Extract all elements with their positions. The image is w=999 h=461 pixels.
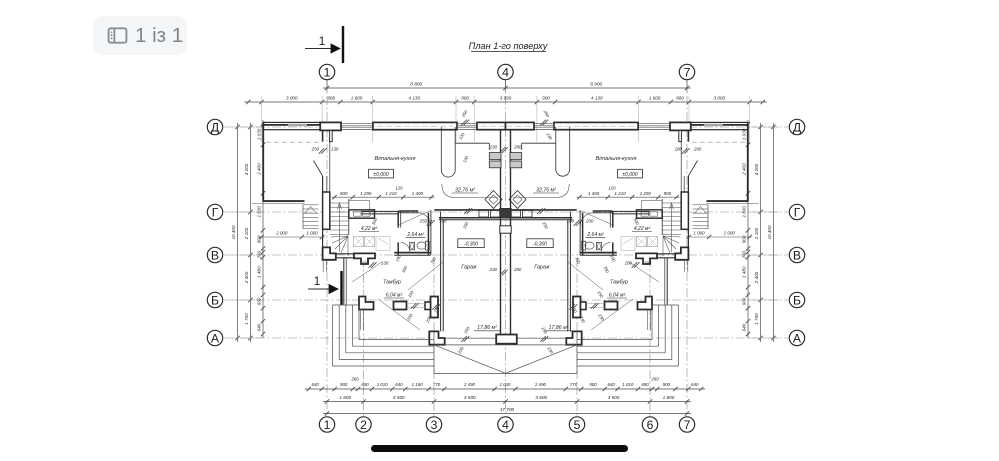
axis circle 6 bottom [642,417,657,432]
svg-text:1 000: 1 000 [693,231,705,236]
svg-text:640: 640 [312,382,320,387]
svg-text:250: 250 [460,109,469,119]
dimension column right inner [742,120,751,338]
svg-text:2 400: 2 400 [754,271,759,284]
svg-text:350: 350 [401,265,409,274]
svg-text:3 500: 3 500 [608,395,620,400]
svg-text:200: 200 [643,261,652,266]
laundry appliances (left) [354,237,391,251]
leader lines (right) [568,210,659,330]
svg-text:Б: Б [211,293,219,307]
svg-text:1: 1 [324,65,331,79]
svg-text:2,64 м²: 2,64 м² [406,232,424,238]
dimension column right outer [767,123,776,342]
svg-text:Тамбур: Тамбур [383,280,401,286]
wall thickness callouts (right) [537,109,702,355]
svg-text:А: А [793,331,802,345]
svg-text:1 400: 1 400 [588,191,600,196]
tambour-garage divider wall (right) [568,212,586,332]
svg-text:750: 750 [574,256,582,265]
svg-text:900: 900 [664,191,672,196]
dimension column right mid [754,123,763,342]
svg-text:32,76 м²: 32,76 м² [536,188,556,194]
axis circle 4 top [498,64,513,79]
dimension row bottom 1800/3500 [323,395,691,404]
svg-text:-0,300: -0,300 [533,242,547,248]
svg-text:Д: Д [793,120,802,134]
svg-text:Г: Г [794,205,801,219]
svg-text:3 090: 3 090 [500,96,512,101]
dimension row top segments [244,96,767,142]
svg-text:Д: Д [211,120,220,134]
svg-text:900: 900 [589,382,597,387]
svg-text:230: 230 [489,267,498,272]
svg-text:130: 130 [331,147,339,152]
svg-text:3: 3 [431,418,438,432]
svg-text:8 800: 8 800 [410,82,422,88]
svg-text:Вітальня-кухня: Вітальня-кухня [596,156,637,162]
svg-text:640: 640 [691,382,699,387]
svg-text:1 290: 1 290 [360,191,372,196]
kitchen fixtures (right) [509,127,570,217]
svg-text:350: 350 [603,265,611,274]
svg-text:Гараж: Гараж [461,265,477,271]
svg-text:±0,000: ±0,000 [622,172,637,178]
interior staircase (left) [330,199,349,256]
svg-text:660: 660 [742,297,747,305]
axis circle А right [789,330,804,345]
dimension row bottom fine [305,377,705,392]
svg-text:4 130: 4 130 [409,96,421,101]
svg-text:900: 900 [327,96,335,101]
svg-text:План 1-го поверху: План 1-го поверху [469,41,549,51]
svg-text:10 400: 10 400 [231,225,236,239]
svg-text:Вітальня-кухня: Вітальня-кухня [375,156,416,162]
dimension row bottom total 17700 [323,407,691,416]
svg-text:1 600: 1 600 [351,96,363,101]
axis circle 1 top [319,64,334,79]
svg-text:200: 200 [693,147,702,152]
svg-text:150: 150 [540,326,548,335]
svg-text:1 800: 1 800 [339,395,351,400]
svg-text:150: 150 [463,325,471,334]
axis circle В left [207,247,222,262]
svg-text:1 210: 1 210 [614,191,626,196]
svg-text:32,76 м²: 32,76 м² [455,188,475,194]
svg-text:В: В [211,248,219,262]
svg-text:6,04 м²: 6,04 м² [609,293,626,299]
axis circle 2 bottom [356,417,371,432]
svg-text:900: 900 [542,96,550,101]
svg-text:230: 230 [546,345,555,355]
page counter chip [93,16,187,55]
svg-text:А: А [211,331,220,345]
svg-text:180: 180 [625,261,633,266]
garage (left) [429,218,505,345]
bathroom 2.64 (right) [580,211,617,255]
section mark 1 top [305,26,343,63]
svg-text:130: 130 [462,155,470,164]
top exterior wall (left) [263,122,506,141]
axis circle 7 bottom [679,417,694,432]
svg-text:1: 1 [324,418,331,432]
svg-text:2: 2 [360,418,367,432]
room labels (left) [359,156,478,299]
tambour front wall (left) [344,258,425,330]
svg-text:Гараж: Гараж [534,265,550,271]
dimension row top 8800/8900 [323,80,691,92]
axis circle В right [789,247,804,262]
wing room walls + entry steps (right) [691,123,759,228]
svg-text:1 160: 1 160 [412,382,424,387]
svg-text:130: 130 [439,219,447,224]
section mark 1 left [308,271,342,305]
svg-text:150: 150 [596,290,604,299]
laundry appliances (right) [621,237,658,251]
top exterior wall (right) [506,122,749,141]
svg-text:1 480: 1 480 [257,266,262,278]
svg-text:4: 4 [502,65,509,79]
porch steps (left) [333,305,434,366]
svg-text:180: 180 [675,147,683,152]
svg-text:280: 280 [513,145,522,150]
svg-text:Тамбур: Тамбур [610,280,628,286]
svg-text:17 700: 17 700 [500,407,515,412]
svg-text:250: 250 [311,147,320,152]
extension lines rows [232,127,779,338]
svg-text:2 000: 2 000 [723,231,736,236]
svg-text:1 290: 1 290 [640,191,652,196]
bottom scroll bar [371,445,628,452]
svg-text:900: 900 [257,235,262,243]
svg-text:1 480: 1 480 [742,266,747,278]
svg-text:17,86 м²: 17,86 м² [477,325,497,331]
kitchen counter unit (right) [637,201,663,219]
svg-text:770: 770 [570,382,578,387]
kitchen counter unit (left) [349,201,375,219]
dimension column left mid [244,123,253,342]
svg-text:2 100: 2 100 [754,227,759,240]
svg-text:-0,300: -0,300 [464,242,478,248]
svg-text:3 600: 3 600 [535,395,547,400]
svg-text:±0,000: ±0,000 [373,172,388,178]
driveway apron [434,331,577,373]
svg-text:2 400: 2 400 [244,271,249,284]
svg-text:900: 900 [742,235,747,243]
svg-text:900: 900 [676,96,684,101]
svg-text:660: 660 [257,297,262,305]
svg-text:1 010: 1 010 [377,382,389,387]
svg-text:2 400: 2 400 [742,163,747,176]
svg-text:2 100: 2 100 [244,227,249,240]
svg-text:1 010: 1 010 [622,382,634,387]
svg-text:640: 640 [608,382,616,387]
svg-text:250: 250 [542,109,551,119]
svg-text:4: 4 [502,418,509,432]
svg-text:2 400: 2 400 [257,163,262,176]
svg-text:4 200: 4 200 [244,163,249,175]
svg-text:900: 900 [663,382,671,387]
axis circle 5 bottom [569,417,584,432]
svg-text:640: 640 [257,323,262,331]
svg-text:120: 120 [395,186,403,191]
svg-text:2,64 м²: 2,64 м² [586,232,604,238]
svg-text:690: 690 [641,382,649,387]
svg-text:900: 900 [461,96,469,101]
svg-text:280: 280 [513,267,522,272]
svg-text:7: 7 [684,65,691,79]
wall thickness callouts (left) [311,109,522,355]
party wall centre [496,130,517,344]
axis grid dash-dot lines [224,80,788,416]
svg-text:130: 130 [458,131,466,140]
svg-text:2 490: 2 490 [534,382,547,387]
svg-text:130: 130 [381,261,389,266]
svg-text:2 000: 2 000 [275,231,288,236]
pages icon [107,27,128,44]
dimension column left inner [257,120,266,338]
svg-text:1: 1 [319,34,326,48]
svg-text:1 700: 1 700 [244,313,249,325]
svg-text:130: 130 [545,132,553,141]
svg-text:10 400: 10 400 [767,225,772,239]
axis circle Д left [207,119,222,134]
svg-text:250: 250 [419,219,428,224]
svg-text:1 030: 1 030 [500,382,512,387]
svg-text:1 400: 1 400 [412,191,424,196]
garage (right) [506,218,582,345]
wing room walls + entry steps (left) [252,123,320,228]
svg-text:260: 260 [742,250,747,259]
svg-text:В: В [793,248,801,262]
svg-text:4 130: 4 130 [591,96,603,101]
svg-text:3 000: 3 000 [286,96,298,101]
svg-text:1: 1 [314,274,321,288]
bathroom 2.64 (left) [394,211,431,255]
svg-text:2 490: 2 490 [463,382,476,387]
svg-text:Г: Г [212,205,219,219]
svg-text:8 900: 8 900 [590,82,602,88]
axis circle 3 bottom [426,417,441,432]
axis-1 wall with pier (right) [675,130,697,272]
svg-text:230: 230 [597,312,606,322]
svg-text:230: 230 [405,312,414,322]
svg-text:1 600: 1 600 [649,96,661,101]
svg-text:1 800: 1 800 [663,395,675,400]
svg-text:3 500: 3 500 [393,395,405,400]
svg-text:4,22 м²: 4,22 м² [634,226,651,232]
svg-text:1 830: 1 830 [257,206,262,218]
svg-text:6,04 м²: 6,04 м² [386,293,403,299]
interior staircase (right) [662,199,681,256]
svg-text:200: 200 [585,219,594,224]
svg-text:1 030: 1 030 [257,128,262,140]
drawing title [469,41,549,52]
svg-text:900: 900 [340,191,348,196]
kitchen fixtures (left) [441,127,502,217]
svg-text:1 000: 1 000 [306,231,318,236]
tambour-garage divider wall (left) [425,212,443,332]
axis circle Б left [207,292,222,307]
svg-text:1 700: 1 700 [754,313,759,325]
svg-text:1 210: 1 210 [385,191,397,196]
axis circle 4 bottom [498,417,513,432]
svg-text:17,86 м²: 17,86 м² [549,325,569,331]
axis circle 1 bottom [319,417,334,432]
interior cross walls (right) [511,210,676,264]
dimension column left outer [231,123,240,342]
svg-text:260: 260 [650,377,659,382]
axis circle Б right [789,292,804,307]
svg-text:640: 640 [742,323,747,331]
svg-text:1 830: 1 830 [742,206,747,218]
interior cross walls (left) [336,210,501,264]
svg-text:120: 120 [608,186,616,191]
svg-text:150: 150 [407,289,415,298]
svg-text:5: 5 [574,418,581,432]
axis-1 wall with pier (left) [314,130,336,272]
axis circle Г left [207,204,222,219]
svg-text:7: 7 [684,418,691,432]
svg-text:900: 900 [340,382,348,387]
svg-text:4 200: 4 200 [754,163,759,175]
svg-text:770: 770 [433,382,441,387]
leader lines (left) [352,210,443,330]
interior dimension rows (right) [577,186,753,240]
svg-text:250: 250 [541,220,549,230]
porch steps (right) [577,305,678,366]
svg-text:260: 260 [350,377,359,382]
axis circle 7 top [679,64,694,79]
svg-text:250: 250 [461,221,469,231]
axis circle Д right [789,119,804,134]
svg-text:690: 690 [361,382,369,387]
svg-text:750: 750 [429,256,437,265]
tambour front wall (right) [586,258,667,330]
svg-text:230: 230 [489,145,498,150]
axis circle Г right [789,204,804,219]
svg-text:Б: Б [793,293,801,307]
room labels (right) [533,156,652,299]
svg-text:640: 640 [395,382,403,387]
svg-text:3 500: 3 500 [464,395,476,400]
svg-text:6: 6 [647,418,654,432]
svg-text:180: 180 [567,219,575,224]
axis circle А left [207,330,222,345]
svg-text:4,22 м²: 4,22 м² [361,226,378,232]
interior dimension rows (left) [259,186,435,240]
svg-text:3 000: 3 000 [714,96,726,101]
svg-text:250: 250 [361,261,370,266]
